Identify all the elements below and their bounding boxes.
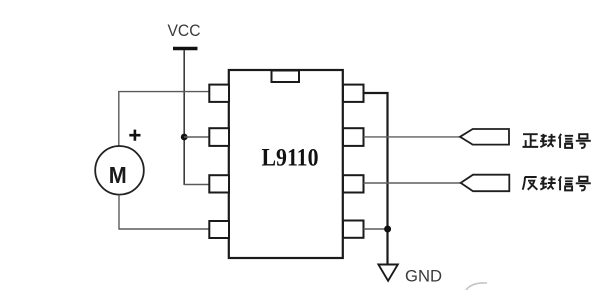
faint watermark arc <box>466 283 487 290</box>
wire VCC rail corner to pin 3 <box>184 184 209 186</box>
wire from motor top to pin 1 (left) <box>119 92 210 147</box>
char zhuan <box>540 176 556 189</box>
motor M1 <box>95 146 144 195</box>
wire pin 8 to ground bus <box>364 93 388 264</box>
char xin <box>559 134 573 148</box>
char zheng <box>523 134 539 147</box>
wire VCC rail to pin 2 <box>184 136 210 138</box>
wire from motor bottom to pin 4 (left) <box>119 195 210 229</box>
char zhuan <box>540 134 556 147</box>
ground symbol <box>378 265 397 281</box>
junction node on ground bus <box>384 226 391 233</box>
wire VCC vertical rail <box>183 50 185 185</box>
pin 8 (right top) <box>343 85 364 102</box>
svg-text:VCC: VCC <box>168 21 201 40</box>
connector J2 reverse signal tag <box>461 175 510 192</box>
IC notch index mark <box>272 71 300 83</box>
pin 6 (right) <box>343 175 364 192</box>
pin 1 (left top) <box>209 85 229 102</box>
IC U1 body <box>229 70 343 258</box>
label text 反转信号 (reverse signal) <box>523 176 591 190</box>
pin 4 (left bottom) <box>209 221 229 238</box>
pin 5 (right bottom) <box>343 221 364 238</box>
wire pin 5 to ground bus <box>364 228 388 230</box>
wire pin 7 to forward connector <box>364 136 461 138</box>
pin 2 (left) <box>209 128 229 146</box>
char hao <box>576 134 591 148</box>
svg-text:M: M <box>109 162 127 188</box>
svg-text:GND: GND <box>405 267 442 286</box>
junction node at VCC rail / pin2 wire <box>181 134 188 141</box>
connector J1 forward signal tag <box>460 129 509 145</box>
power symbol VCC <box>168 21 201 49</box>
char fan <box>523 177 538 190</box>
label text 正转信号 (forward signal) <box>523 134 591 148</box>
pin 3 (left) <box>209 175 229 192</box>
pin 7 (right) <box>343 128 364 146</box>
polarity plus sign <box>129 130 140 141</box>
wire pin 6 to reverse connector <box>364 182 462 184</box>
char hao <box>576 177 591 191</box>
svg-text:L9110: L9110 <box>262 145 319 172</box>
char xin <box>559 176 573 190</box>
